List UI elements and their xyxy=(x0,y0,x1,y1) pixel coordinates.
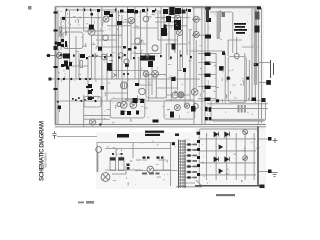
svg-text:SCHEMATIC DIAGRAM: SCHEMATIC DIAGRAM xyxy=(40,121,46,181)
svg-text:W25-0566-00: W25-0566-00 xyxy=(44,152,48,168)
